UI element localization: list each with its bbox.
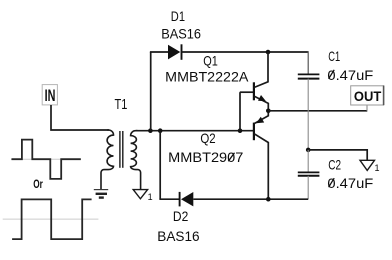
wire C1 bottom to junction (gray) (307, 79, 309, 150)
Q2 emitter (254, 111, 268, 124)
waveform bipolar pulse (12, 140, 81, 179)
Q2 base bar (253, 123, 255, 141)
Q1 emitter arrow (258, 95, 266, 101)
junction dot (158, 128, 163, 133)
svg-text:T1: T1 (115, 97, 128, 113)
net flag 1 (transformer secondary) (133, 190, 147, 199)
svg-text:0.47uF: 0.47uF (327, 67, 373, 83)
svg-text:1: 1 (148, 192, 153, 202)
capacitor C1 (298, 74, 320, 78)
ground symbol (94, 190, 108, 198)
svg-text:IN: IN (45, 86, 56, 105)
slash on zero of C2 value (329, 178, 335, 187)
wire IN to T1 primary (51, 105, 109, 130)
waveform square wave (12, 199, 92, 239)
transistor Q2 MMBT2907 (254, 111, 268, 199)
transformer T1 primary coil (101, 130, 114, 189)
svg-text:D2: D2 (173, 208, 189, 224)
junction dot (148, 128, 153, 133)
wire vertical to D1 (150, 52, 152, 131)
net flag 1 (output side) (360, 160, 375, 170)
OUT stub (366, 105, 368, 111)
svg-text:BAS16: BAS16 (161, 26, 201, 42)
wire top rail corner down to C1 (307, 51, 309, 74)
wire mid horizontal (secondary to Q2 base) (136, 130, 253, 132)
Q2 emitter arrow (256, 117, 264, 123)
junction dot (Q2 collector / bottom rail) (266, 197, 271, 202)
Q1 base bar (253, 82, 255, 100)
svg-text:Q1: Q1 (203, 53, 218, 69)
diode D1 (168, 44, 182, 60)
svg-text:D1: D1 (171, 8, 185, 24)
Q2 collector (254, 134, 268, 199)
waveform square axis (gray) (3, 218, 99, 220)
svg-text:Q2: Q2 (200, 130, 215, 146)
wire vertical to D2 (159, 131, 161, 200)
wire output to OUT (268, 110, 367, 112)
transformer T1 core (119, 131, 121, 168)
capacitor C2 (298, 172, 320, 175)
svg-text:MMBT2222A: MMBT2222A (165, 69, 249, 85)
wire bottom rail left of D2 (159, 198, 179, 200)
output node dot (266, 109, 271, 114)
junction dot (238, 128, 243, 133)
transformer T1 secondary coil (131, 131, 141, 189)
slash on zero of C1 value (329, 70, 335, 79)
svg-text:C2: C2 (328, 156, 341, 172)
wire junction to net flag (308, 150, 367, 160)
wire junction down to C2 (gray) (307, 150, 309, 172)
svg-text:1: 1 (375, 163, 380, 173)
wire top rail left of D1 (150, 51, 168, 53)
svg-text:Or: Or (33, 179, 43, 191)
junction dot (Q1 collector / top rail) (266, 50, 271, 55)
wire bottom rail right of D2 (193, 198, 308, 200)
svg-text:0.47uF: 0.47uF (327, 175, 373, 191)
waveform bipolar pulse axis (gray) (11, 158, 81, 160)
node OUT port box (351, 86, 384, 106)
Q1 emitter (254, 96, 268, 111)
slash on zero of MMBT2907 (228, 153, 234, 162)
svg-text:MMBT2907: MMBT2907 (168, 149, 243, 165)
wire C2 bottom to bottom rail (gray) (307, 176, 309, 199)
Q1 base tap vertical (239, 92, 241, 131)
wire top rail right of D1 (182, 51, 309, 53)
svg-text:BAS16: BAS16 (157, 228, 199, 244)
node IN port box (42, 85, 57, 105)
junction dot (C2 top) (306, 148, 311, 153)
Q1 collector (254, 52, 268, 87)
transistor Q1 MMBT2222A (240, 52, 268, 131)
diode D2 (180, 192, 194, 207)
Q1 base wire (240, 91, 253, 93)
svg-text:C1: C1 (328, 48, 340, 64)
svg-text:OUT: OUT (354, 88, 382, 104)
